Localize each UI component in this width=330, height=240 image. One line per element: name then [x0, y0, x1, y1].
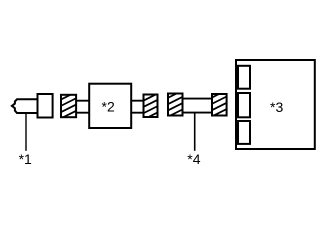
leader line *1: [25, 113, 27, 151]
svg-text:*1: *1: [19, 151, 32, 167]
wire terminal plug *1: [12, 99, 38, 113]
svg-text:*4: *4: [187, 151, 200, 167]
hatched grommet left of *2: [61, 95, 76, 117]
terminal body rect *1: [38, 94, 53, 118]
connector slot 3 of *3: [238, 121, 250, 144]
left stub wire pair: [77, 101, 90, 113]
svg-text:*3: *3: [270, 99, 283, 115]
hatched collar left of *4: [168, 94, 183, 116]
hatched collar right of *4: [212, 94, 227, 116]
component box *2: [89, 84, 131, 128]
connector slot 2 of *3: [238, 93, 250, 117]
svg-text:*2: *2: [102, 99, 115, 115]
leader line *4: [194, 113, 196, 150]
connector slot 1 of *3: [238, 66, 250, 89]
ECU box *3: [236, 60, 315, 149]
hatched grommet right of *2: [144, 95, 158, 118]
shaft bar *4: [183, 99, 213, 113]
right stub wire pair: [130, 101, 144, 113]
